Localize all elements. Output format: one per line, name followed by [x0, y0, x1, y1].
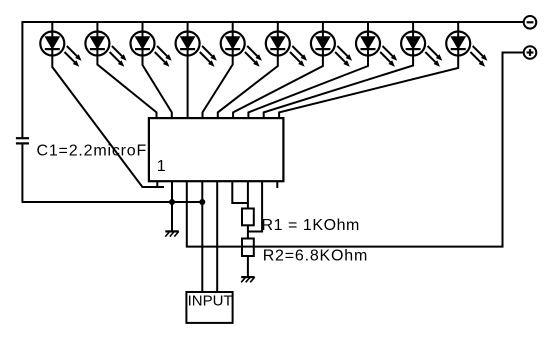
- wire LED D2 cathode to IC top pin: [97, 56, 156, 119]
- LED D2: [85, 22, 126, 67]
- junction dot node input rail end: [199, 199, 205, 205]
- INPUT box: [186, 292, 232, 323]
- wire IC pin to ground 1: [171, 181, 173, 231]
- wire IC pin to R1-R2 junction: [248, 181, 262, 231]
- wire IC V+ pin to plus terminal: [187, 53, 524, 247]
- resistor R2: [242, 239, 254, 257]
- wire bottom ground rail: [22, 201, 203, 203]
- LED D6: [266, 22, 307, 67]
- resistor R1: [242, 209, 254, 226]
- svg-text:INPUT: INPUT: [188, 293, 233, 310]
- wire LED D8 cathode to IC top pin: [248, 56, 368, 119]
- wire R1 to R2: [247, 225, 249, 238]
- wire C1 to bottom rail: [21, 143, 23, 202]
- plus supply terminal: [524, 46, 537, 59]
- LED D3: [131, 22, 172, 67]
- wire LED D1 cathode to IC pin 1: [52, 56, 164, 188]
- capacitor C1: [16, 137, 29, 139]
- wire IC signal pin to INPUT left: [201, 181, 203, 292]
- wire LED D7 cathode to IC top pin: [233, 56, 323, 119]
- LED D8: [356, 22, 397, 67]
- svg-text:R2=6.8KOhm: R2=6.8KOhm: [263, 248, 368, 265]
- LED D7: [311, 22, 352, 67]
- wire IC signal pin to INPUT right: [216, 181, 218, 292]
- LED D1: [40, 22, 81, 67]
- wire LED D9 cathode to IC top pin: [264, 56, 413, 119]
- wire LED D6 cathode to IC top pin: [218, 56, 278, 119]
- junction dot node GND rail: [169, 199, 175, 205]
- LED D10: [446, 22, 487, 67]
- ground 1: [165, 231, 179, 236]
- svg-text:R1 = 1KOhm: R1 = 1KOhm: [262, 217, 360, 234]
- wire IC pin 9 stub: [276, 181, 278, 188]
- op-amp U1 LED driver IC body: [149, 118, 284, 181]
- svg-text:C1=2.2microF: C1=2.2microF: [37, 143, 148, 160]
- wire LED D4 cathode to IC top pin: [187, 56, 189, 119]
- wire IC pin 1 stub: [156, 181, 158, 188]
- LED D5: [221, 22, 262, 67]
- ground 2: [241, 277, 255, 282]
- wire LED D5 cathode to IC top pin: [203, 56, 233, 119]
- wire top supply rail: [22, 21, 524, 23]
- svg-text:1: 1: [157, 158, 166, 175]
- wire crossing R2 (V+ feed): [242, 246, 254, 248]
- wire IC pin to R1 top (L bend): [232, 181, 248, 203]
- minus supply terminal: [524, 16, 537, 29]
- wire LED D10 cathode to IC top pin: [279, 56, 458, 119]
- wire LED D3 cathode to IC top pin: [143, 56, 172, 119]
- wire IC pin down to R1: [247, 181, 249, 208]
- wire left rail to C1: [21, 21, 23, 138]
- LED D4: [176, 22, 217, 67]
- wire R2 to ground 2: [247, 256, 249, 277]
- LED D9: [401, 22, 442, 67]
